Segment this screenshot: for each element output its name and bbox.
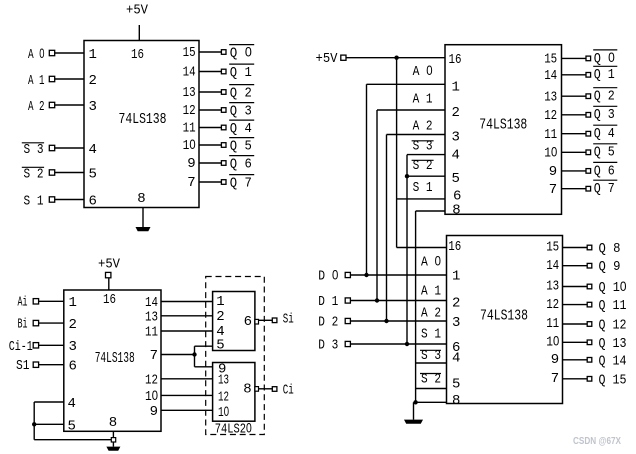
wire U3 pin 10 to output Q13	[563, 341, 588, 343]
svg-text:Q 13: Q 13	[599, 336, 627, 352]
svg-text:5: 5	[216, 338, 224, 354]
svg-text:A 0: A 0	[28, 45, 45, 63]
svg-text:A 0: A 0	[421, 253, 441, 271]
output terminal Q0	[221, 50, 226, 55]
ground symbol (circuit 2)	[413, 402, 415, 419]
svg-text:2: 2	[452, 105, 460, 121]
svg-text:5: 5	[68, 418, 76, 434]
svg-text:74LS138: 74LS138	[95, 350, 135, 367]
svg-text:1: 1	[452, 80, 460, 96]
svg-text:Ci-1: Ci-1	[9, 339, 33, 355]
svg-text:10: 10	[544, 144, 557, 162]
svg-text:8: 8	[109, 415, 117, 431]
svg-text:8: 8	[452, 202, 460, 218]
wire U1 pin 11 to output Q4	[199, 127, 221, 129]
svg-text:Q 12: Q 12	[599, 318, 627, 334]
U5 pin 8 stub square	[255, 387, 259, 392]
svg-text:16: 16	[449, 52, 462, 68]
svg-text:74LS138: 74LS138	[479, 117, 527, 134]
output terminal Q15	[587, 377, 592, 382]
wire S3 to U1 pin 4	[55, 147, 84, 149]
svg-text:10: 10	[546, 333, 559, 351]
input S2 terminal (circuit 1)	[49, 170, 54, 175]
svg-text:14: 14	[544, 68, 557, 84]
wire U3 pin 12 to output Q11	[563, 304, 588, 306]
svg-text:6: 6	[69, 358, 77, 374]
svg-text:2: 2	[89, 73, 97, 89]
svg-text:2: 2	[216, 309, 224, 325]
junction D0 feed	[364, 273, 368, 277]
output terminal Ci	[272, 387, 277, 392]
wire D3 to U3 pin 6	[350, 343, 446, 345]
svg-text:14: 14	[546, 258, 559, 274]
input Ai terminal	[33, 299, 38, 304]
svg-text:Q 6: Q 6	[594, 163, 615, 179]
wire U1 pin 14 to output Q1	[199, 71, 221, 73]
junction U4 pins 4-5 tie	[32, 422, 36, 426]
svg-text:Q 3: Q 3	[230, 104, 252, 120]
svg-text:Q 1: Q 1	[230, 65, 252, 81]
output terminal Q12	[587, 322, 592, 327]
IC U4 74LS138 body	[64, 290, 161, 431]
output terminal Q1	[221, 69, 226, 74]
junction +5V / vertical feed to U3 pin 16	[394, 56, 398, 60]
svg-text:74LS138: 74LS138	[480, 308, 528, 325]
svg-text:Q 7: Q 7	[230, 176, 252, 192]
svg-text:12: 12	[145, 372, 158, 388]
wire U2 pin 6 to +5V vertical	[397, 198, 445, 200]
wire pins 4/5 to ground stem	[34, 439, 111, 441]
wire U2 pin 5	[407, 175, 445, 177]
svg-text:9: 9	[150, 404, 158, 420]
svg-text:Q 15: Q 15	[599, 372, 627, 388]
svg-text:S1: S1	[16, 358, 30, 374]
wire U4 pin 14 to U5 pin 1	[161, 301, 213, 303]
IC U1 74LS138 body	[84, 41, 199, 208]
output terminal Q14	[587, 358, 592, 363]
junction carry node	[192, 352, 196, 356]
input S1 terminal	[33, 362, 38, 367]
svg-text:Q 9: Q 9	[599, 259, 621, 275]
svg-text:S 1: S 1	[413, 180, 433, 196]
wire U3 pin 13 to output Q10	[563, 286, 588, 288]
wire +5V vertical down to U3 pin 16	[396, 58, 398, 248]
wire U3 pin 5 from ground vertical	[416, 388, 447, 390]
svg-text:A 2: A 2	[413, 118, 433, 134]
wire U1 pin 12 to output Q3	[199, 109, 221, 111]
svg-text:Bi: Bi	[18, 317, 28, 333]
svg-text:Q 5: Q 5	[594, 145, 615, 161]
svg-text:4: 4	[89, 142, 97, 158]
svg-text:13: 13	[145, 309, 158, 325]
output terminal Q3	[221, 108, 226, 113]
wire S1 to U4 pin 6	[39, 364, 64, 366]
wire U2 pin 11 to output Q4	[562, 133, 587, 135]
wire U2 pin 15 to output Q0	[562, 57, 587, 59]
wire D1 to U3 pin 2	[350, 300, 446, 302]
svg-text:3: 3	[452, 130, 460, 146]
junction U3 pin 8 / ground	[413, 400, 417, 404]
wire Ci-1 to U4 pin 3	[39, 344, 64, 346]
svg-text:A 0: A 0	[413, 62, 433, 80]
svg-text:Ai: Ai	[18, 294, 28, 310]
svg-text:Ci: Ci	[283, 382, 294, 398]
svg-text:3: 3	[89, 99, 97, 115]
svg-text:11: 11	[546, 316, 559, 332]
svg-text:6: 6	[453, 189, 461, 205]
output terminal Q3 (circuit 2)	[586, 113, 591, 118]
output terminal Q0 (circuit 2)	[586, 56, 591, 61]
svg-text:Q 7: Q 7	[594, 181, 615, 197]
wire U2 pin 4 to D3 vertical	[407, 154, 445, 156]
svg-text:Q 11: Q 11	[599, 298, 627, 314]
wire D2 to U3 pin 3	[350, 320, 446, 322]
svg-text:13: 13	[546, 279, 559, 295]
svg-text:Q 3: Q 3	[594, 107, 615, 123]
svg-text:Q 5: Q 5	[230, 139, 252, 155]
svg-text:A 1: A 1	[28, 73, 45, 89]
ground symbol (U4 pin 8)	[112, 431, 114, 446]
junction D3 feed	[405, 342, 409, 346]
svg-text:Q 0: Q 0	[594, 49, 615, 67]
svg-text:Q 2: Q 2	[230, 86, 252, 102]
wire A1 to U1 pin 2	[55, 78, 84, 80]
wire U4 pin 7 to U5 pins 5 and 9	[161, 354, 195, 356]
wire U2 pin 13 to output Q2	[562, 95, 587, 97]
wire A2 to U1 pin 3	[55, 104, 84, 106]
wire U4 pin 11 to U5 pin 4	[161, 330, 213, 332]
wire D0 to U3 pin 1	[350, 274, 446, 276]
svg-text:5: 5	[89, 167, 97, 183]
wire U4 pin 9 to U5 pin 10	[161, 409, 213, 411]
junction D1 feed	[375, 298, 379, 302]
wire U1 pin 9 to output Q6	[199, 162, 221, 164]
wire U3 pin 9 to output Q14	[563, 359, 588, 361]
wire U2 pin 3 to D2 vertical	[387, 134, 446, 136]
svg-text:10: 10	[218, 403, 229, 421]
U5 pin 6 stub square	[255, 319, 259, 324]
input A1 terminal (circuit 1)	[49, 76, 54, 81]
wire U4 pin 12 to U5 pin 13	[161, 378, 213, 380]
svg-text:A 1: A 1	[413, 91, 433, 107]
wire U3 pin 15 to output Q8	[563, 247, 588, 249]
svg-text:1: 1	[452, 269, 460, 285]
svg-text:A 2: A 2	[28, 99, 45, 115]
svg-text:9: 9	[549, 164, 557, 180]
svg-text:5: 5	[452, 376, 460, 392]
svg-text:D 1: D 1	[318, 294, 338, 310]
wire +5V to U2 pin 16	[346, 57, 445, 59]
svg-text:11: 11	[145, 325, 158, 341]
input S3 terminal (circuit 1)	[49, 145, 54, 150]
svg-text:7: 7	[551, 371, 559, 387]
svg-text:Q 4: Q 4	[594, 126, 615, 142]
svg-text:CSDN @67X: CSDN @67X	[573, 435, 621, 447]
svg-text:6: 6	[244, 314, 252, 330]
output terminal Q7	[221, 180, 226, 185]
input D1 terminal	[345, 298, 350, 303]
wire +5V to U4 pin 16	[108, 278, 110, 290]
output terminal Q7 (circuit 2)	[586, 186, 591, 191]
junction D2 feed	[384, 319, 388, 323]
svg-text:Q 10: Q 10	[599, 278, 627, 296]
wire U3 pin 4 from ground vertical	[416, 362, 447, 364]
output terminal Q13	[587, 340, 592, 345]
svg-text:S 1: S 1	[24, 194, 44, 210]
output terminal Q11	[587, 302, 592, 307]
svg-text:S 2: S 2	[24, 167, 44, 183]
svg-text:11: 11	[544, 127, 557, 143]
wire U2 pin 7 to output Q7	[562, 188, 587, 190]
+5V terminal (circuit 2)	[341, 55, 346, 60]
svg-text:15: 15	[544, 52, 557, 68]
svg-text:4: 4	[68, 396, 76, 412]
output terminal Q4 (circuit 2)	[586, 131, 591, 136]
output terminal Q2	[221, 90, 226, 95]
wire U2 pin 1 to D0 vertical	[367, 83, 446, 85]
svg-text:13: 13	[544, 89, 557, 105]
output terminal Q5	[221, 143, 226, 148]
wire A0 to U1 pin 1	[55, 52, 84, 54]
svg-text:9: 9	[187, 156, 195, 172]
svg-text:7: 7	[187, 175, 195, 191]
svg-text:16: 16	[131, 47, 144, 63]
IC U2 74LS138 body (upper)	[445, 45, 562, 215]
svg-text:13: 13	[218, 372, 229, 388]
svg-text:+5V: +5V	[126, 3, 149, 19]
wire U4 pin 13 to U5 pin 2	[161, 315, 213, 317]
svg-text:74LS20: 74LS20	[215, 419, 252, 437]
ground symbol (U1 pin 8)	[142, 208, 144, 228]
svg-text:12: 12	[183, 103, 196, 119]
svg-text:A 1: A 1	[421, 283, 441, 299]
+5V terminal (circuit 3)	[106, 272, 111, 277]
wire U2 pin 12 to output Q3	[562, 114, 587, 116]
svg-text:74LS138: 74LS138	[119, 111, 167, 128]
wire U2 pin 8 to ground vertical	[416, 210, 445, 212]
output terminal Q10	[587, 284, 592, 289]
wire into U3 pin 16	[397, 247, 447, 249]
svg-text:8: 8	[137, 191, 145, 207]
svg-text:Q 2: Q 2	[594, 89, 615, 105]
ground tap square on U4 pin 8 stem	[111, 438, 115, 442]
svg-text:15: 15	[546, 240, 559, 256]
junction U2 pin 5 on D3 vertical	[405, 174, 409, 178]
wire U2 pin 10 to output Q5	[562, 151, 587, 153]
wire U4 pin 10 to U5 pin 12	[161, 394, 213, 396]
svg-text:13: 13	[183, 85, 196, 101]
input A0 terminal (circuit 1)	[49, 50, 54, 55]
svg-text:Q 8: Q 8	[599, 241, 621, 257]
output terminal Q5 (circuit 2)	[586, 150, 591, 155]
svg-text:+5V: +5V	[98, 256, 121, 272]
svg-text:16: 16	[448, 239, 461, 255]
svg-text:Q 1: Q 1	[594, 67, 615, 83]
svg-text:1: 1	[69, 295, 77, 311]
svg-text:12: 12	[544, 108, 557, 124]
wire U1 pin 7 to output Q7	[199, 181, 221, 183]
svg-text:15: 15	[183, 45, 196, 61]
svg-text:3: 3	[452, 315, 460, 331]
svg-text:8: 8	[243, 382, 251, 398]
output terminal Q1 (circuit 2)	[586, 73, 591, 78]
wire U3 pin 14 to output Q9	[563, 265, 588, 267]
wire U3 pin 8 to ground	[416, 401, 447, 403]
svg-text:2: 2	[69, 317, 77, 333]
U5 gate A body	[213, 292, 255, 351]
svg-text:7: 7	[150, 348, 158, 364]
wire U1 pin 15 to output Q0	[199, 51, 221, 53]
wire Ai to U4 pin 1	[39, 300, 64, 302]
svg-text:7: 7	[549, 182, 557, 198]
svg-text:6: 6	[89, 194, 97, 210]
svg-text:12: 12	[546, 297, 559, 313]
wire U1 pin 13 to output Q2	[199, 91, 221, 93]
wire U4 pin 4 loop	[34, 401, 64, 403]
svg-text:Q 6: Q 6	[230, 157, 252, 173]
wire +5V to U1 pin 16	[138, 25, 140, 41]
input D2 terminal	[345, 318, 350, 323]
svg-text:1: 1	[89, 47, 97, 63]
input Ci-1 terminal	[33, 343, 38, 348]
output terminal Q4	[221, 125, 226, 130]
svg-text:2: 2	[452, 295, 460, 311]
wire U5 pin 8 to Ci	[259, 388, 273, 390]
svg-text:S 3: S 3	[24, 142, 44, 158]
dashed package outline 74LS20	[206, 277, 265, 435]
wire Bi to U4 pin 2	[39, 322, 64, 324]
svg-text:14: 14	[183, 65, 196, 81]
svg-text:A 2: A 2	[421, 305, 441, 321]
wire U2 pin 2 to D1 vertical	[377, 109, 445, 111]
svg-text:D 3: D 3	[318, 337, 338, 353]
output terminal Q9	[587, 263, 592, 268]
svg-text:4: 4	[452, 148, 460, 164]
wire S1 to U1 pin 6	[55, 199, 84, 201]
svg-text:Si: Si	[283, 311, 294, 327]
wire U5 pin 6 to Si	[259, 319, 273, 321]
input S1 terminal (circuit 1)	[49, 197, 54, 202]
svg-text:4: 4	[452, 351, 460, 367]
input A2 terminal (circuit 1)	[49, 102, 54, 107]
input D3 terminal	[345, 341, 350, 346]
svg-text:S 1: S 1	[421, 326, 441, 342]
output terminal Q6	[221, 161, 226, 166]
svg-text:16: 16	[103, 292, 116, 308]
svg-text:8: 8	[452, 393, 460, 409]
svg-text:1: 1	[216, 294, 224, 310]
svg-text:9: 9	[551, 352, 559, 368]
svg-text:Q 4: Q 4	[230, 121, 252, 137]
output terminal Q6 (circuit 2)	[586, 169, 591, 174]
svg-text:10: 10	[145, 387, 158, 405]
svg-text:Q 0: Q 0	[230, 44, 252, 62]
output terminal Si	[272, 318, 277, 323]
wire U3 pin 11 to output Q12	[563, 323, 588, 325]
wire U2 pin 9 to output Q6	[562, 170, 587, 172]
output terminal Q8	[587, 245, 592, 250]
wire S2 to U1 pin 5	[55, 172, 84, 174]
wire carry node down to U5 pin 9	[194, 355, 196, 367]
svg-text:Q 14: Q 14	[599, 353, 627, 369]
svg-text:3: 3	[69, 339, 77, 355]
svg-text:+5V: +5V	[316, 51, 339, 67]
wire carry node up to U5 pin 5	[194, 346, 196, 354]
svg-text:11: 11	[183, 121, 196, 137]
IC U3 74LS138 body (lower)	[447, 236, 563, 404]
wire U1 pin 10 to output Q5	[199, 144, 221, 146]
input Bi terminal	[33, 320, 38, 325]
U5 gate B body	[213, 363, 255, 422]
wire U2 pin 14 to output Q1	[562, 74, 587, 76]
wire U3 pin 7 to output Q15	[563, 378, 588, 380]
output terminal Q2 (circuit 2)	[586, 94, 591, 99]
svg-text:D 2: D 2	[318, 314, 338, 330]
svg-text:D 0: D 0	[318, 266, 338, 284]
svg-text:10: 10	[183, 136, 196, 154]
wire U4 pin 5	[34, 423, 64, 425]
svg-text:5: 5	[452, 171, 460, 187]
input D0 terminal	[345, 272, 350, 277]
